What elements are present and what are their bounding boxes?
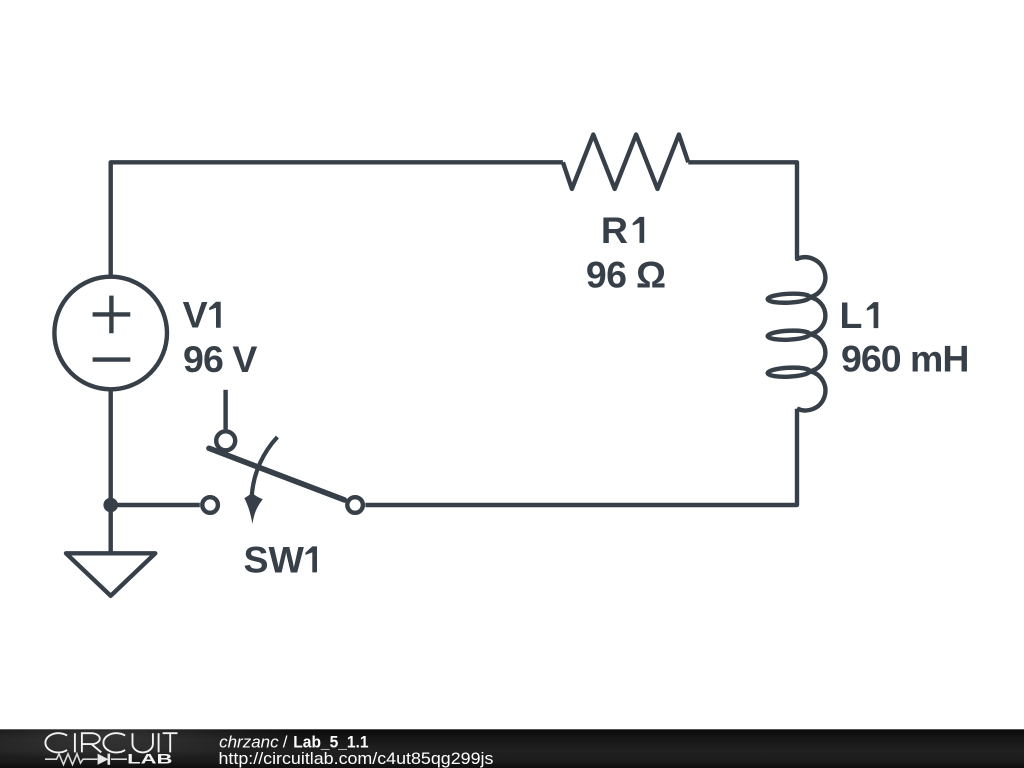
svg-text:L: L: [840, 294, 863, 336]
logo diode triangle: [98, 754, 109, 765]
svg-text:96 V: 96 V: [183, 338, 257, 380]
wire: top wire right segment and right vertical to inductor: [688, 162, 797, 258]
footer bar: [0, 729, 1024, 768]
label V1: digit 1: [209, 302, 221, 328]
svg-text:96 Ω: 96 Ω: [586, 253, 666, 295]
switch SW1 arrowhead: [244, 492, 262, 524]
switch SW1 action arrow arc: [252, 437, 278, 496]
ground: [66, 553, 155, 596]
logo resistor squiggle: [45, 754, 97, 765]
voltage source V1 circle: [54, 277, 167, 390]
wire: junction to switch left terminal: [111, 503, 200, 507]
junction node dot: [103, 498, 118, 513]
wire: left vertical above source and top wire: [111, 162, 563, 277]
resistor R1: [563, 135, 688, 189]
label SW1: digit 1: [306, 546, 318, 572]
label L1: digit 1: [867, 302, 879, 328]
switch SW1 top terminal circle: [216, 431, 235, 450]
V1 plus sign: [93, 296, 131, 334]
svg-text:SW: SW: [244, 538, 305, 580]
V1 minus sign: [93, 357, 131, 361]
logo glow: [0, 708, 305, 760]
logo letter I: [158, 733, 160, 752]
logo letter C: [45, 733, 67, 752]
switch SW1 stub wire: [223, 390, 227, 430]
svg-text:http://circuitlab.com/c4ut85qg: http://circuitlab.com/c4ut85qg299js: [219, 749, 494, 768]
wire: left vertical below source through junction node to ground: [108, 389, 112, 553]
logo letter U: [133, 733, 153, 752]
svg-text:960 mH: 960 mH: [841, 337, 970, 379]
logo letter R: [82, 733, 101, 752]
svg-text:V: V: [183, 294, 208, 336]
svg-text:R: R: [601, 209, 628, 251]
switch SW1 lever: [209, 448, 344, 500]
wire: right vertical below inductor and bottom wire to switch right terminal: [365, 409, 797, 505]
svg-text:LAB: LAB: [127, 752, 173, 767]
logo diode wire: [111, 758, 127, 760]
logo letter T: [163, 733, 178, 752]
logo diode cathode bar: [108, 754, 111, 765]
logo letter I: [74, 733, 76, 752]
switch SW1 right terminal circle: [347, 497, 363, 513]
switch SW1 left terminal circle: [202, 497, 218, 513]
logo letter C: [103, 733, 125, 752]
inductor L1 coil: [768, 257, 826, 410]
label R1: digit 1: [633, 217, 645, 243]
